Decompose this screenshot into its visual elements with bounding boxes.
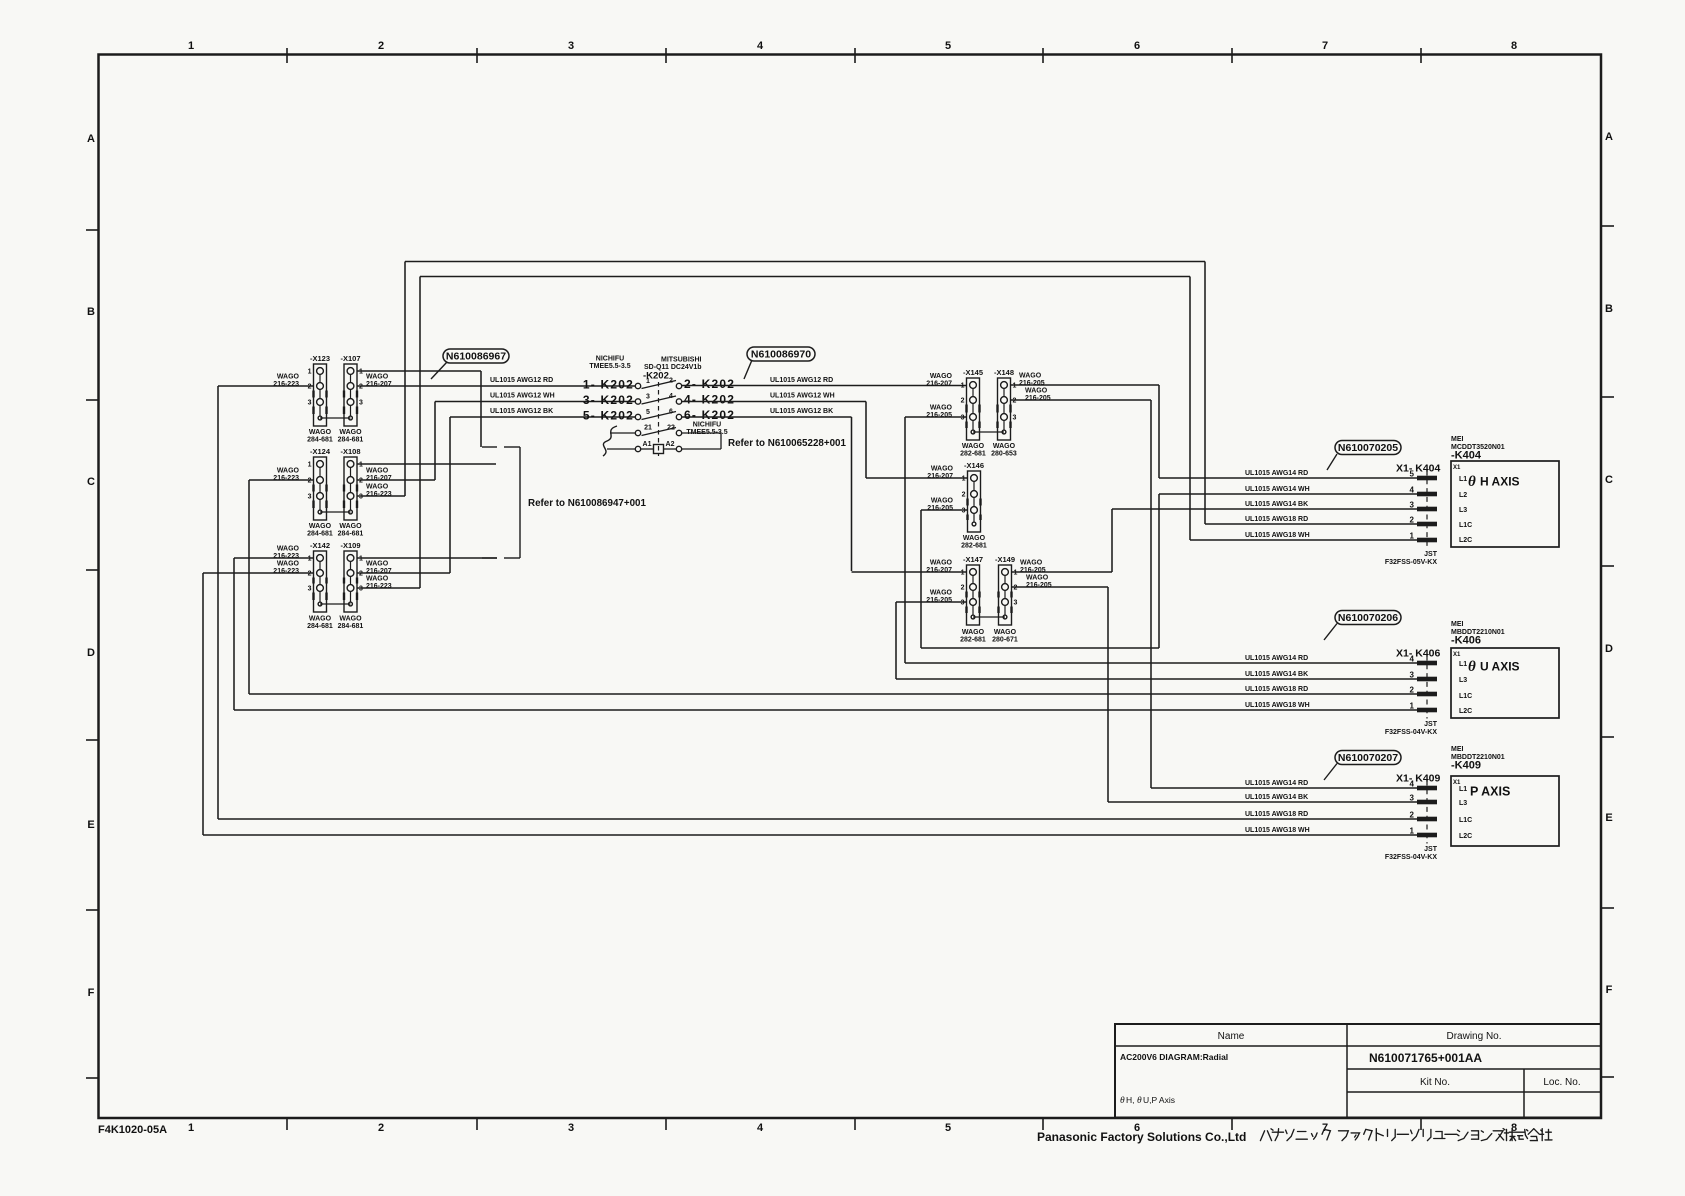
svg-text:2: 2 bbox=[308, 478, 312, 485]
wire X107.2 to contact 1 (UL1015 AWG12 RD) bbox=[357, 385, 635, 387]
svg-text:θ: θ bbox=[1468, 474, 1476, 490]
svg-text:WAGO: WAGO bbox=[930, 373, 953, 380]
relay K202 contact 1-2 bbox=[635, 383, 640, 388]
svg-text:UL1015 AWG18 WH: UL1015 AWG18 WH bbox=[1245, 702, 1310, 709]
svg-text:2: 2 bbox=[1410, 516, 1415, 525]
wire small-pin link X124-X108 bbox=[320, 511, 351, 513]
svg-text:3: 3 bbox=[308, 494, 312, 501]
wire X109.2 stub bbox=[357, 572, 450, 574]
wire X149.2 drop to K409 row2 bbox=[1107, 587, 1109, 802]
svg-text:JST: JST bbox=[1424, 551, 1438, 558]
svg-text:N610070205: N610070205 bbox=[1338, 442, 1398, 454]
svg-text:2: 2 bbox=[359, 384, 363, 391]
svg-text:Refer to N610086947+001: Refer to N610086947+001 bbox=[528, 498, 646, 509]
svg-text:MEI: MEI bbox=[1451, 436, 1464, 443]
svg-text:2: 2 bbox=[378, 40, 384, 52]
wire X142.1 riser to K406 row4 bbox=[233, 558, 235, 710]
wire X109.2 riser to BK row bbox=[449, 417, 451, 573]
svg-text:22: 22 bbox=[667, 425, 675, 432]
svg-text:1: 1 bbox=[961, 570, 965, 577]
callout N610070207 bbox=[1324, 751, 1401, 781]
svg-text:UL1015 AWG14 RD: UL1015 AWG14 RD bbox=[1245, 655, 1308, 662]
svg-text:282-681: 282-681 bbox=[960, 451, 986, 458]
svg-text:F32FSS-04V-KX: F32FSS-04V-KX bbox=[1385, 854, 1437, 861]
svg-text:3: 3 bbox=[962, 508, 966, 515]
svg-text:-X142: -X142 bbox=[310, 541, 330, 550]
wire small-pin link X142-X109 bbox=[320, 603, 351, 605]
svg-text:E: E bbox=[87, 819, 94, 831]
svg-text:1: 1 bbox=[646, 378, 650, 385]
svg-text:NICHIFU: NICHIFU bbox=[596, 356, 624, 363]
svg-text:WAGO: WAGO bbox=[366, 484, 389, 491]
svg-text:WAGO: WAGO bbox=[1019, 373, 1042, 380]
svg-text:L2C: L2C bbox=[1459, 833, 1472, 840]
svg-text:216-223: 216-223 bbox=[273, 568, 299, 575]
svg-text:2: 2 bbox=[961, 585, 965, 592]
svg-text:A: A bbox=[1605, 131, 1613, 143]
svg-text:3: 3 bbox=[359, 586, 363, 593]
svg-text:Drawing No.: Drawing No. bbox=[1446, 1031, 1501, 1042]
connector X123 bbox=[310, 354, 330, 426]
svg-text:284-681: 284-681 bbox=[338, 437, 364, 444]
svg-text:-K404: -K404 bbox=[1451, 450, 1482, 462]
svg-text:1- K202: 1- K202 bbox=[583, 378, 634, 392]
svg-text:L3: L3 bbox=[1459, 800, 1467, 807]
svg-text:WAGO: WAGO bbox=[339, 616, 362, 623]
svg-text:2: 2 bbox=[962, 492, 966, 499]
wire vertical drop left of upper loop 2 bbox=[419, 277, 421, 589]
wire X146.3 cross run bbox=[921, 647, 1159, 649]
svg-text:UL1015 AWG14 RD: UL1015 AWG14 RD bbox=[1245, 780, 1308, 787]
svg-text:N610071765+001AA: N610071765+001AA bbox=[1369, 1051, 1482, 1065]
wire squiggle to coil A1 bbox=[607, 448, 635, 450]
svg-text:UL1015 AWG14 RD: UL1015 AWG14 RD bbox=[1245, 470, 1308, 477]
wire K406 row1 AWG14 RD bbox=[905, 662, 1417, 664]
label Japanese company name (stroke approximation) bbox=[1260, 1129, 1273, 1141]
wire BK row to contact 5 bbox=[450, 416, 635, 418]
svg-text:2: 2 bbox=[1410, 686, 1415, 695]
wire X109.1 to refer bracket bbox=[357, 557, 497, 559]
svg-text:L1: L1 bbox=[1459, 476, 1467, 483]
wire X148.1 riser to K404 row1 bbox=[1158, 385, 1160, 478]
wire X148.2 riser to K409 row1 bbox=[1150, 400, 1152, 788]
svg-text:WAGO: WAGO bbox=[1020, 560, 1043, 567]
svg-text:WAGO: WAGO bbox=[931, 466, 954, 473]
svg-text:6: 6 bbox=[669, 409, 673, 416]
wire X123.2 stub bbox=[218, 385, 314, 387]
svg-text:X1: X1 bbox=[1453, 465, 1461, 471]
svg-text:1: 1 bbox=[1013, 383, 1017, 390]
ruler tick marks bottom bbox=[286, 1118, 288, 1130]
svg-text:MEI: MEI bbox=[1451, 746, 1464, 753]
wire BK drop to X147.1 bbox=[851, 417, 853, 571]
connector X146 bbox=[964, 461, 984, 532]
wire K409 row1 AWG14 RD bbox=[1151, 787, 1417, 789]
wire X149.1 stub bbox=[1012, 571, 1112, 573]
svg-text:UL1015 AWG18 RD: UL1015 AWG18 RD bbox=[1245, 516, 1308, 523]
svg-text:Name: Name bbox=[1218, 1031, 1245, 1042]
wire X146.3 drop bbox=[920, 510, 922, 648]
svg-text:216-205: 216-205 bbox=[926, 597, 952, 604]
svg-text:C: C bbox=[1605, 474, 1613, 486]
callout N610086970 bbox=[744, 347, 815, 379]
svg-text:282-681: 282-681 bbox=[961, 543, 987, 550]
svg-text:1: 1 bbox=[359, 369, 363, 376]
svg-text:JST: JST bbox=[1424, 721, 1438, 728]
K406 connector dashed spine bbox=[1426, 656, 1428, 719]
wire K404 row2 AWG14 WH bbox=[1159, 493, 1417, 495]
svg-text:2: 2 bbox=[1013, 398, 1017, 405]
wire to X146.1 bbox=[866, 477, 967, 479]
svg-text:WAGO: WAGO bbox=[309, 523, 332, 530]
svg-text:-K406: -K406 bbox=[1451, 635, 1481, 647]
svg-text:21: 21 bbox=[644, 425, 652, 432]
svg-text:216-223: 216-223 bbox=[273, 553, 299, 560]
connector X142 bbox=[310, 541, 330, 612]
callout N610086967 bbox=[431, 349, 509, 379]
wire small-pin link X147-X149 bbox=[973, 616, 1005, 618]
wire X107.1 drop to refer bracket bbox=[480, 371, 482, 447]
svg-text:L3: L3 bbox=[1459, 677, 1467, 684]
svg-text:-X149: -X149 bbox=[995, 555, 1015, 564]
svg-text:216-207: 216-207 bbox=[927, 473, 953, 480]
svg-text:X1- K406: X1- K406 bbox=[1396, 648, 1441, 660]
wire K404 row4 AWG18 RD bbox=[1205, 523, 1417, 525]
connector X148 bbox=[994, 368, 1014, 440]
svg-text:2: 2 bbox=[961, 398, 965, 405]
svg-text:E: E bbox=[1605, 812, 1612, 824]
svg-text:H AXIS: H AXIS bbox=[1480, 475, 1520, 489]
svg-text:3: 3 bbox=[359, 400, 363, 407]
wire X148.1 to riser bbox=[1011, 384, 1159, 386]
wire X108.2 stub bbox=[357, 479, 435, 481]
svg-text:216-205: 216-205 bbox=[1026, 582, 1052, 589]
svg-text:U,P Axis: U,P Axis bbox=[1143, 1095, 1175, 1105]
svg-text:-X108: -X108 bbox=[340, 447, 360, 456]
svg-text:Loc. No.: Loc. No. bbox=[1543, 1077, 1580, 1088]
svg-text:WAGO: WAGO bbox=[962, 629, 985, 636]
svg-text:Panasonic Factory Solutions Co: Panasonic Factory Solutions Co.,Ltd bbox=[1037, 1130, 1246, 1144]
svg-text:3: 3 bbox=[308, 586, 312, 593]
wire K406 row2 AWG14 BK bbox=[896, 678, 1417, 680]
svg-text:216-223: 216-223 bbox=[273, 381, 299, 388]
svg-text:F4K1020-05A: F4K1020-05A bbox=[98, 1124, 167, 1136]
svg-text:WAGO: WAGO bbox=[931, 498, 954, 505]
svg-text:280-671: 280-671 bbox=[992, 637, 1018, 644]
svg-text:UL1015 AWG14 WH: UL1015 AWG14 WH bbox=[1245, 486, 1310, 493]
relay mechanical link dashed bbox=[658, 382, 660, 456]
wire small-pin link X145-X148 bbox=[973, 431, 1004, 433]
svg-text:θ: θ bbox=[1468, 659, 1476, 675]
svg-text:2: 2 bbox=[669, 378, 673, 385]
relay K202 contact 21-22 bbox=[635, 430, 640, 435]
wire coil A2 to refer hook bbox=[682, 448, 721, 450]
svg-text:284-681: 284-681 bbox=[307, 437, 333, 444]
svg-text:L2C: L2C bbox=[1459, 708, 1472, 715]
svg-text:L1C: L1C bbox=[1459, 693, 1472, 700]
svg-text:L2: L2 bbox=[1459, 492, 1467, 499]
svg-text:1: 1 bbox=[1410, 827, 1415, 836]
svg-text:UL1015 AWG18 RD: UL1015 AWG18 RD bbox=[1245, 686, 1308, 693]
svg-text:2: 2 bbox=[308, 571, 312, 578]
svg-text:4: 4 bbox=[1410, 486, 1415, 495]
svg-text:WAGO: WAGO bbox=[366, 576, 389, 583]
svg-text:WAGO: WAGO bbox=[930, 590, 953, 597]
svg-text:2: 2 bbox=[359, 478, 363, 485]
svg-text:8: 8 bbox=[1511, 40, 1517, 52]
wire X149.2 stub bbox=[1012, 586, 1108, 588]
connector K404 pin bars bbox=[1417, 476, 1437, 481]
svg-text:WAGO: WAGO bbox=[366, 561, 389, 568]
svg-text:3: 3 bbox=[961, 415, 965, 422]
svg-text:UL1015 AWG18 WH: UL1015 AWG18 WH bbox=[1245, 827, 1310, 834]
relay K202 contact 3-4 bbox=[635, 399, 640, 404]
svg-text:216-207: 216-207 bbox=[926, 567, 952, 574]
svg-text:UL1015 AWG12 WH: UL1015 AWG12 WH bbox=[770, 393, 835, 400]
svg-text:UL1015 AWG18 WH: UL1015 AWG18 WH bbox=[1245, 532, 1310, 539]
svg-text:N610070206: N610070206 bbox=[1338, 612, 1398, 624]
svg-text:F: F bbox=[1606, 984, 1613, 996]
svg-text:216-205: 216-205 bbox=[1019, 380, 1045, 387]
driver box K409 bbox=[1451, 776, 1559, 846]
svg-text:216-207: 216-207 bbox=[366, 381, 392, 388]
wire small-pin link X123-X107 bbox=[320, 417, 351, 419]
wire X142.1 stub bbox=[234, 557, 314, 559]
refer boundary bracket dashed bbox=[482, 446, 497, 448]
connector X107 bbox=[340, 354, 360, 426]
svg-text:5: 5 bbox=[646, 409, 650, 416]
svg-text:AC200V6 DIAGRAM:Radial: AC200V6 DIAGRAM:Radial bbox=[1120, 1052, 1228, 1062]
svg-text:1: 1 bbox=[359, 462, 363, 469]
wire net X109.3 to K404 upper loop bbox=[420, 276, 1190, 278]
svg-text:UL1015 AWG12 BK: UL1015 AWG12 BK bbox=[490, 408, 553, 415]
svg-text:N610086967: N610086967 bbox=[446, 351, 506, 363]
wire X142.2 riser to K409 row4 bbox=[202, 573, 204, 835]
svg-text:L1: L1 bbox=[1459, 786, 1467, 793]
svg-text:284-681: 284-681 bbox=[307, 623, 333, 630]
svg-text:WAGO: WAGO bbox=[994, 629, 1017, 636]
svg-text:WAGO: WAGO bbox=[309, 616, 332, 623]
svg-text:F32FSS-04V-KX: F32FSS-04V-KX bbox=[1385, 729, 1437, 736]
wire K406 row3 AWG18 RD bbox=[249, 693, 1417, 695]
svg-text:1: 1 bbox=[962, 476, 966, 483]
svg-text:F32FSS-05V-KX: F32FSS-05V-KX bbox=[1385, 559, 1437, 566]
svg-text:3: 3 bbox=[646, 394, 650, 401]
svg-text:N610086970: N610086970 bbox=[751, 349, 811, 361]
svg-text:4- K202: 4- K202 bbox=[684, 393, 735, 407]
wire K409 row3 AWG18 RD bbox=[218, 818, 1417, 820]
wire contact 22 to refer hook bbox=[682, 432, 721, 434]
svg-text:TMEE5.5-3.5: TMEE5.5-3.5 bbox=[589, 363, 630, 370]
svg-text:1: 1 bbox=[188, 40, 194, 52]
svg-text:WAGO: WAGO bbox=[277, 546, 300, 553]
svg-text:2: 2 bbox=[308, 384, 312, 391]
wire contact 4 (UL1015 AWG12 WH) bbox=[682, 401, 866, 403]
svg-text:5: 5 bbox=[945, 40, 951, 52]
svg-text:-X147: -X147 bbox=[963, 555, 983, 564]
connector K409 pin bars bbox=[1417, 786, 1437, 791]
svg-text:280-653: 280-653 bbox=[991, 451, 1017, 458]
svg-text:3: 3 bbox=[568, 1122, 574, 1134]
wire X142.2 stub bbox=[203, 572, 314, 574]
svg-text:3: 3 bbox=[1410, 794, 1415, 803]
svg-text:2: 2 bbox=[1410, 811, 1415, 820]
svg-text:WAGO: WAGO bbox=[993, 443, 1016, 450]
svg-text:WAGO: WAGO bbox=[277, 561, 300, 568]
svg-text:3: 3 bbox=[1410, 501, 1415, 510]
ruler tick marks top bbox=[286, 48, 288, 63]
connector K406 pin bars bbox=[1417, 661, 1437, 666]
svg-text:284-681: 284-681 bbox=[307, 531, 333, 538]
svg-text:L2C: L2C bbox=[1459, 537, 1472, 544]
svg-text:Kit No.: Kit No. bbox=[1420, 1077, 1450, 1088]
wire X108.3 stub bbox=[357, 495, 405, 497]
svg-text:WAGO: WAGO bbox=[930, 560, 953, 567]
svg-text:B: B bbox=[1605, 303, 1613, 315]
svg-text:UL1015 AWG14 BK: UL1015 AWG14 BK bbox=[1245, 671, 1308, 678]
svg-text:A: A bbox=[87, 133, 95, 145]
svg-text:4: 4 bbox=[757, 40, 764, 52]
connector X109 bbox=[340, 541, 360, 612]
svg-text:282-681: 282-681 bbox=[960, 637, 986, 644]
wire X148.2 to riser bbox=[1011, 399, 1151, 401]
svg-text:B: B bbox=[87, 306, 95, 318]
svg-text:F: F bbox=[88, 987, 95, 999]
svg-text:θ: θ bbox=[1137, 1096, 1142, 1106]
svg-text:-X148: -X148 bbox=[994, 368, 1014, 377]
svg-text:L1C: L1C bbox=[1459, 817, 1472, 824]
svg-text:3: 3 bbox=[308, 400, 312, 407]
svg-text:L1: L1 bbox=[1459, 661, 1467, 668]
wire X109.3 stub bbox=[357, 587, 420, 589]
wire X145.3 riser to K406 row1 bbox=[904, 417, 906, 663]
wire X123.2 riser to K409 row3 bbox=[217, 386, 219, 819]
svg-text:A1: A1 bbox=[643, 441, 652, 448]
svg-text:L3: L3 bbox=[1459, 507, 1467, 514]
svg-text:4: 4 bbox=[669, 393, 673, 400]
wire refer hook vertical bbox=[720, 433, 722, 449]
svg-text:D: D bbox=[1605, 643, 1613, 655]
wire X147.3 drop to K406 row2 bbox=[895, 602, 897, 679]
wire X146.3 stub bbox=[921, 509, 967, 511]
svg-text:Refer to N610065228+001: Refer to N610065228+001 bbox=[728, 438, 846, 449]
wire K406 row4 AWG18 WH bbox=[234, 709, 1417, 711]
svg-text:284-681: 284-681 bbox=[338, 623, 364, 630]
svg-text:WAGO: WAGO bbox=[366, 468, 389, 475]
connector X145 bbox=[963, 368, 983, 440]
svg-text:NICHIFU: NICHIFU bbox=[693, 422, 721, 429]
svg-text:X1- K409: X1- K409 bbox=[1396, 773, 1441, 785]
svg-text:-X124: -X124 bbox=[310, 447, 331, 456]
svg-text:UL1015 AWG12 RD: UL1015 AWG12 RD bbox=[490, 377, 553, 384]
svg-text:UL1015 AWG18 RD: UL1015 AWG18 RD bbox=[1245, 811, 1308, 818]
drawing border frame bbox=[99, 55, 1602, 1119]
svg-text:MITSUBISHI: MITSUBISHI bbox=[661, 357, 702, 364]
svg-text:1: 1 bbox=[188, 1122, 194, 1134]
svg-text:216-205: 216-205 bbox=[926, 412, 952, 419]
driver box K404 bbox=[1451, 461, 1559, 547]
svg-text:X1- K404: X1- K404 bbox=[1396, 463, 1441, 475]
svg-text:N610070207: N610070207 bbox=[1338, 752, 1398, 764]
svg-text:7: 7 bbox=[1322, 40, 1328, 52]
svg-text:UL1015 AWG12 BK: UL1015 AWG12 BK bbox=[770, 408, 833, 415]
wire K404 row1 AWG14 RD bbox=[1159, 477, 1417, 479]
wire X149.1 riser to K404 row3 bbox=[1111, 509, 1113, 572]
connector X108 bbox=[340, 447, 360, 520]
svg-text:1: 1 bbox=[308, 369, 312, 376]
ruler tick marks right bbox=[1601, 225, 1614, 227]
svg-text:216-207: 216-207 bbox=[926, 381, 952, 388]
wire net X108.3 to K404 upper loop bbox=[405, 261, 1205, 263]
wire K409 row2 AWG14 BK bbox=[1108, 801, 1417, 803]
svg-text:MEI: MEI bbox=[1451, 621, 1464, 628]
wire X147.3 stub bbox=[896, 601, 966, 603]
relay K202 coil A1-A2 bbox=[635, 446, 640, 451]
relay K202 contact 5-6 bbox=[635, 414, 640, 419]
svg-text:3: 3 bbox=[568, 40, 574, 52]
svg-text:WAGO: WAGO bbox=[962, 443, 985, 450]
connector X147 bbox=[963, 555, 983, 625]
wire vertical drop right of upper loop 1 bbox=[1204, 262, 1206, 525]
svg-text:1: 1 bbox=[308, 462, 312, 469]
svg-text:-X123: -X123 bbox=[310, 354, 330, 363]
svg-text:WAGO: WAGO bbox=[930, 405, 953, 412]
wire X124.2 stub bbox=[249, 479, 314, 481]
svg-text:3- K202: 3- K202 bbox=[583, 393, 634, 407]
svg-text:WAGO: WAGO bbox=[339, 523, 362, 530]
ruler tick marks left bbox=[86, 229, 99, 231]
svg-text:1: 1 bbox=[1410, 702, 1415, 711]
svg-text:P AXIS: P AXIS bbox=[1470, 785, 1510, 799]
wire X108.1 bbox=[357, 463, 496, 465]
svg-text:X1: X1 bbox=[1453, 652, 1461, 658]
svg-text:WAGO: WAGO bbox=[366, 374, 389, 381]
svg-text:-K409: -K409 bbox=[1451, 760, 1481, 772]
svg-text:-X109: -X109 bbox=[340, 541, 360, 550]
svg-text:2- K202: 2- K202 bbox=[684, 377, 735, 391]
svg-text:UL1015 AWG12 WH: UL1015 AWG12 WH bbox=[490, 393, 555, 400]
wire X124.2 riser to K406 row3 bbox=[248, 480, 250, 694]
svg-text:1: 1 bbox=[308, 556, 312, 563]
svg-text:284-681: 284-681 bbox=[338, 531, 364, 538]
svg-text:216-223: 216-223 bbox=[366, 583, 392, 590]
wire contact 6 (UL1015 AWG12 BK) bbox=[682, 416, 852, 418]
svg-text:WAGO: WAGO bbox=[1026, 575, 1049, 582]
svg-text:WAGO: WAGO bbox=[277, 468, 300, 475]
svg-text:UL1015 AWG14 BK: UL1015 AWG14 BK bbox=[1245, 501, 1308, 508]
wire K404 row5 AWG18 WH bbox=[1190, 539, 1417, 541]
svg-text:3: 3 bbox=[961, 600, 965, 607]
svg-text:-X107: -X107 bbox=[340, 354, 360, 363]
svg-text:WAGO: WAGO bbox=[963, 535, 986, 542]
connector X149 bbox=[995, 555, 1015, 625]
svg-text:WAGO: WAGO bbox=[309, 429, 332, 436]
connector X124 bbox=[310, 447, 331, 520]
callout N610070205 bbox=[1327, 441, 1401, 471]
svg-text:216-207: 216-207 bbox=[366, 568, 392, 575]
svg-text:3: 3 bbox=[359, 494, 363, 501]
svg-text:UL1015 AWG12 RD: UL1015 AWG12 RD bbox=[770, 377, 833, 384]
svg-text:UL1015 AWG14 BK: UL1015 AWG14 BK bbox=[1245, 794, 1308, 801]
K409 connector dashed spine bbox=[1426, 781, 1428, 844]
svg-text:A2: A2 bbox=[666, 441, 675, 448]
svg-text:216-223: 216-223 bbox=[366, 491, 392, 498]
svg-text:216-205: 216-205 bbox=[1020, 567, 1046, 574]
driver box K406 bbox=[1451, 648, 1559, 718]
wire K404 row3 AWG14 BK bbox=[1112, 508, 1417, 510]
wire riser to K404 row2 bbox=[1158, 494, 1160, 648]
svg-text:D: D bbox=[87, 647, 95, 659]
